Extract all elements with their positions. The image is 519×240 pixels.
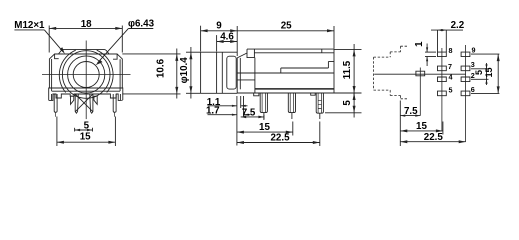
pin2 side [288,93,295,119]
right pin front [113,94,116,112]
leader underline phi6.43 [128,28,153,30]
flange base line [52,90,121,92]
contact line lower [255,88,334,90]
flange corner notch top-left [55,54,59,59]
body top chamfer [237,53,247,58]
leader line M12x1 [44,30,63,52]
dimension text 7.5 right view [404,106,418,117]
dimension phi10.4 left [186,47,201,99]
label pin 3 [471,60,475,69]
label pin 4 [449,72,453,81]
body outline [237,49,334,93]
svg-text:6: 6 [471,85,475,94]
nut flat line [55,53,118,55]
dimension 15 bottom right view [400,122,443,135]
inner circle phi6.43 [73,62,99,88]
ear bottom-left inner [51,94,53,100]
contact step vertical left [280,68,282,73]
svg-text:4.6: 4.6 [220,32,234,43]
dimension text 7.5 middle [242,107,256,118]
nut circle left arc [59,50,75,92]
dimension text 9 [216,21,222,32]
label phi6.43 [128,19,155,30]
flange corner notch top-right [113,54,117,59]
dimension 15 middle [237,122,293,136]
label pin 9 [472,45,476,54]
dimension 5 right [325,93,362,118]
svg-text:2.2: 2.2 [451,20,465,31]
svg-text:22.5: 22.5 [270,133,290,144]
horizontal centerline [42,74,131,76]
dimension 22.5 right view [400,140,465,143]
dimension text 15 middle [259,122,270,133]
svg-text:18: 18 [81,19,92,30]
pad 8 [438,52,447,57]
nut slot rounded [227,56,236,89]
left pin tail [55,112,57,117]
nut circle right arc [97,50,113,92]
phantom bushing dashed [374,46,408,99]
dimension text 5 [84,120,90,131]
svg-text:9: 9 [216,21,222,32]
contact step vertical right [327,62,329,69]
body top step box [247,49,254,58]
sleeve pad axis [419,68,421,116]
dimension 2.2 [431,29,463,31]
body inner wall 2 [254,58,256,93]
label pin 7 [448,62,452,71]
dimension 4.6 top [217,26,238,56]
dimension text 11.5 [342,60,353,79]
svg-text:7.5: 7.5 [242,107,256,118]
contact line long [281,67,329,69]
dimension 15 vertical right view [471,54,500,93]
leader line phi6.43 [98,29,129,63]
pad 5 [438,91,447,96]
svg-text:15: 15 [484,67,494,77]
dimension text 22.5 middle [270,133,290,144]
dimension 1 (pad height) [425,44,436,67]
outer circle [62,51,110,99]
label pin 5 [449,86,453,95]
dimension 5 vertical right view [471,63,489,85]
pointed stub left [71,96,74,104]
svg-text:5: 5 [449,86,453,95]
middle circle [68,56,105,93]
contact step right upper [328,61,334,63]
svg-text:4: 4 [449,72,453,81]
svg-text:1.7: 1.7 [206,106,220,117]
label pin 2 [471,71,475,80]
vertical centerline [85,41,87,120]
dimension text 5 right [342,100,353,106]
nut top flat [59,49,110,54]
boss near pin1 [254,93,259,96]
bushing outline [201,52,238,93]
tab bottom right [311,93,316,95]
dimension text 1 [414,41,425,47]
pad 3 [461,66,470,71]
right column axis [465,45,467,142]
svg-text:5: 5 [474,70,484,75]
dimension 11.5 right [334,44,362,98]
contact line mid [237,72,334,74]
svg-text:15: 15 [80,131,91,142]
svg-text:φ6.43: φ6.43 [128,19,155,30]
dimension text 2.2 [451,20,465,31]
leader underline M12x1 [14,29,44,31]
svg-text:3: 3 [471,60,475,69]
dimension 7.5 middle [237,96,264,146]
body top inner line [254,52,334,54]
svg-text:5: 5 [84,120,90,131]
dimension 1.7 [208,96,251,117]
flange inner bottom line [49,87,122,89]
svg-text:7: 7 [448,62,452,71]
svg-text:11.5: 11.5 [342,60,353,79]
flange outline [49,54,123,101]
pad 2 [461,77,470,82]
label M12x1 [14,20,45,31]
svg-text:φ10.4: φ10.4 [179,57,190,84]
label pin 6 [471,85,475,94]
dimension 5 bottom [75,128,93,132]
svg-text:25: 25 [281,21,292,32]
contact line left short [237,79,255,81]
reference face extension [399,101,401,147]
dimension text 1.7 [206,106,220,117]
dimension text 15 right view [484,67,494,77]
dimension text phi10.4 [179,57,190,84]
pin1 side [260,93,267,119]
dimension text 15 [80,131,91,142]
dimension text 4.6 [220,32,234,43]
dimension 18 top [49,26,122,53]
svg-text:1: 1 [414,41,425,47]
leader arrow phi6.43 [95,60,102,65]
sleeve pad on centerline [416,71,425,76]
dimension text 5 right view [474,70,484,75]
bushing nut line [221,52,223,93]
shield fork [75,94,93,113]
pad 6 [461,91,470,96]
dimension text 1.1 [207,97,221,108]
bushing thread line [216,52,218,93]
ear bottom-right inner [119,94,121,100]
dimension text 22.5 right view [424,132,444,143]
right pin tail [114,112,116,117]
pin3 side [316,93,323,119]
leader arrow M12x1 [60,47,65,54]
svg-text:22.5: 22.5 [424,132,444,143]
svg-text:10.6: 10.6 [156,58,167,78]
dimension text 15 bottom right view [416,121,427,132]
body inner wall front [239,58,241,89]
svg-text:7.5: 7.5 [404,106,418,117]
internal bottom line [255,88,334,90]
flange inner side walls [51,59,53,91]
svg-text:15: 15 [416,121,427,132]
dimension text 18 [81,19,92,30]
dimension 1.1 [208,96,248,108]
dimension 9 top [201,26,238,52]
left column axis [441,48,443,131]
dimension 22.5 middle [237,122,320,147]
body top right notch [321,49,323,53]
centerline right view [374,73,466,75]
dimension 25 top [237,26,334,49]
pad 7 [438,66,447,71]
svg-text:8: 8 [449,46,453,55]
dimension text 25 [281,21,292,32]
dimension text 10.6 [156,58,167,78]
svg-text:15: 15 [259,122,270,133]
svg-text:5: 5 [342,100,353,106]
left pin front [54,94,57,112]
pad 9 [461,52,470,57]
pad edge extension lines 2.2 [437,30,439,52]
dimension 7.5 right view [400,115,420,117]
pointed stub right [94,96,97,104]
dimension 15 bottom [57,117,116,147]
pad 4 [438,77,447,82]
label pin 8 [449,46,453,55]
dimension 10.6 right [122,49,180,99]
svg-text:9: 9 [472,45,476,54]
